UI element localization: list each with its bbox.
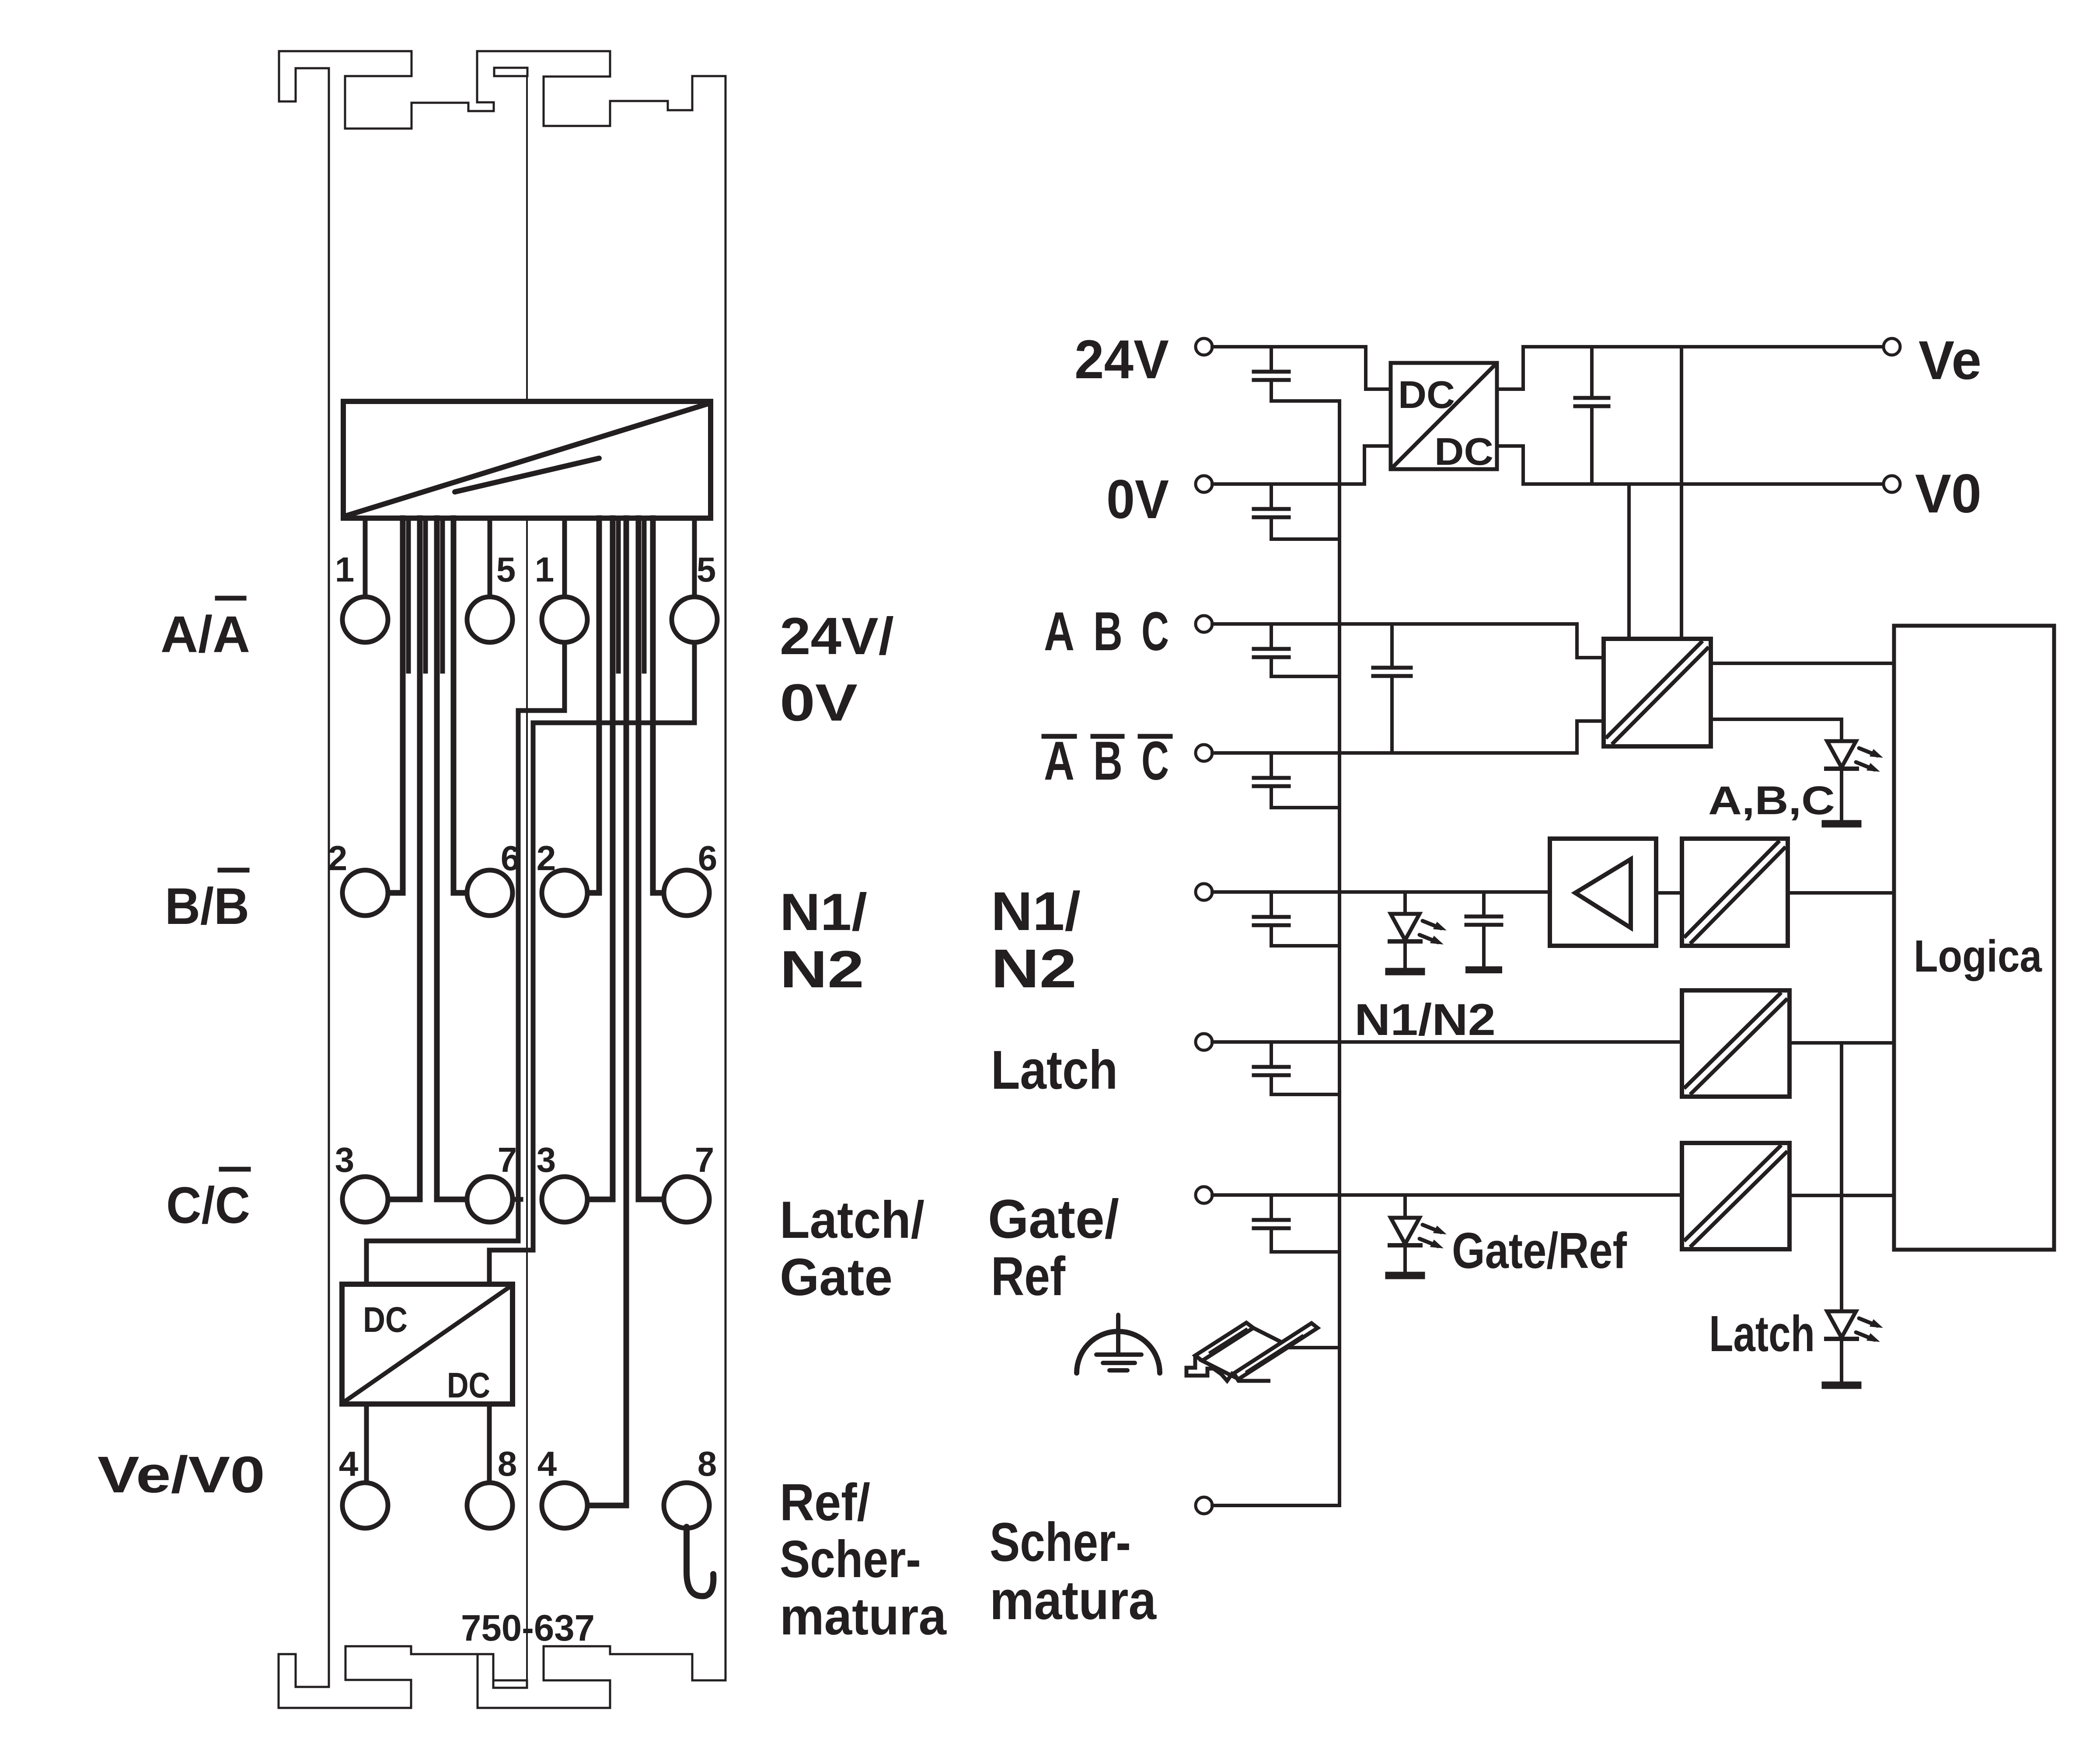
shield bus vertical [1338, 401, 1341, 1505]
wire DCDC out 4 [364, 1404, 369, 1483]
svg-text:DC: DC [447, 1366, 490, 1405]
wire cap24V to bus [1271, 399, 1340, 403]
wire pin2' bus [587, 518, 599, 893]
wire pin1 (r1c1 top) [363, 518, 368, 599]
svg-text:N2: N2 [991, 938, 1077, 999]
contact 4' (Ref) [542, 1483, 587, 1528]
contact 1 (A) [342, 597, 388, 642]
svg-text:8: 8 [698, 1444, 717, 1483]
svg-text:Logica: Logica [1914, 931, 2042, 981]
wire r1c4 to DCDC-in [489, 643, 694, 1284]
wire Latch to isolator [1212, 1040, 1682, 1044]
wire Gate to isolator [1212, 1193, 1682, 1197]
wire pin6' bus [653, 518, 664, 893]
svg-text:7: 7 [498, 1140, 517, 1179]
DC/DC converter box [1391, 363, 1497, 469]
capacitor on ABC [1270, 624, 1273, 647]
wire ABC isolator to LED [1711, 719, 1842, 741]
svg-text:Latch: Latch [991, 1040, 1118, 1101]
contact 3 (C) [342, 1177, 388, 1222]
capacitor on 0V [1270, 484, 1273, 507]
svg-text:750-637: 750-637 [461, 1607, 595, 1648]
wire pair stub d [616, 518, 621, 671]
contact 2' (N1) [542, 870, 587, 916]
svg-text:0V: 0V [780, 673, 858, 732]
isolator ABC [1604, 639, 1711, 746]
svg-text:Gate: Gate [780, 1248, 893, 1307]
isolator Gate/Ref [1682, 1143, 1790, 1249]
overbar on A [217, 596, 244, 601]
svg-text:2: 2 [328, 839, 348, 878]
amplifier triangle [1575, 859, 1631, 928]
contact 6 (/B) [467, 870, 513, 916]
contact 5' (0V) [672, 597, 717, 642]
terminal Gate/Ref [1196, 1187, 1212, 1203]
wire capABC to bus [1271, 675, 1338, 678]
svg-text:6: 6 [501, 839, 520, 878]
contact 2 (B) [342, 870, 388, 916]
power supply box [343, 401, 711, 518]
terminal Ve [1884, 338, 1900, 355]
contact 3' (Latch) [542, 1177, 587, 1222]
terminal /A/B/C [1196, 745, 1212, 761]
wire pair stub c [440, 518, 445, 671]
svg-text:6: 6 [698, 839, 718, 878]
wire 24V to DC/DC [1212, 347, 1391, 389]
wire pin4' bus (Ref) [587, 518, 626, 1505]
svg-text:7: 7 [695, 1140, 715, 1179]
terminal Schermatura [1196, 1497, 1212, 1514]
overbar on B [220, 868, 247, 873]
svg-text:Gate/Ref: Gate/Ref [1452, 1222, 1627, 1279]
wire pair stub e [642, 518, 647, 671]
wire pin7' bus [638, 518, 664, 1199]
svg-text:24V/: 24V/ [780, 607, 894, 665]
wire r3c2 tap [513, 1197, 521, 1202]
bottom bridge connector [478, 1653, 493, 1655]
contact 5 (/A) [467, 597, 513, 642]
wire Latch LED branch [1840, 1043, 1843, 1311]
svg-text:N1/N2: N1/N2 [1354, 995, 1496, 1045]
wire 0V to DC/DC [1212, 446, 1391, 484]
svg-text:Latch/: Latch/ [780, 1191, 924, 1249]
shield hook [687, 1527, 713, 1596]
svg-text:C: C [1141, 601, 1169, 662]
wire pin2 stub [388, 891, 403, 895]
wire pin5 (r1c2 top) [488, 518, 492, 599]
svg-text:3: 3 [537, 1140, 556, 1179]
wire pin1' (r1c3 top) [562, 518, 567, 599]
capacitor on 24V [1270, 347, 1273, 369]
svg-text:B: B [1093, 601, 1123, 662]
overbar on C [221, 1167, 248, 1172]
wire pin3 bus [388, 518, 420, 1199]
svg-text:Scher-: Scher- [780, 1530, 921, 1589]
svg-text:N2: N2 [780, 940, 864, 999]
svg-text:N1/: N1/ [991, 881, 1081, 942]
contact 7' (Gate) [664, 1177, 709, 1222]
svg-text:5: 5 [697, 550, 716, 589]
wire pair stub a [406, 518, 411, 671]
svg-text:DC: DC [1398, 373, 1455, 416]
svg-text:0V: 0V [1106, 469, 1169, 530]
wire DC/DC to Ve [1497, 347, 1883, 389]
svg-text:B: B [1093, 731, 1123, 791]
module center divider line [526, 76, 528, 401]
svg-text:1: 1 [535, 550, 555, 589]
capacitor on Gate [1270, 1195, 1273, 1218]
wire pair stub b [423, 518, 428, 671]
terminal V0 [1884, 476, 1900, 492]
wire ABC isolator to Logica [1711, 662, 1894, 665]
svg-text:Latch: Latch [1709, 1305, 1815, 1362]
wire r1c3 to DCDC-in [366, 643, 565, 1284]
wire capLatch to bus [1271, 1093, 1338, 1096]
wire cap/ABC to bus [1271, 806, 1338, 809]
svg-text:A,B,C: A,B,C [1708, 778, 1835, 823]
svg-text:A: A [1044, 601, 1074, 662]
svg-text:A: A [1044, 731, 1074, 791]
power supply box diagonal [345, 404, 708, 516]
svg-text:Gate/: Gate/ [988, 1189, 1119, 1250]
svg-text:4: 4 [339, 1444, 359, 1483]
wire Schermatura to bus [1212, 1504, 1340, 1507]
wire N1 to amplifier [1212, 890, 1550, 894]
svg-text:8: 8 [498, 1444, 517, 1483]
LED N1/N2 [1403, 892, 1407, 968]
svg-text:Ref/: Ref/ [780, 1473, 870, 1532]
wire Ve branch to ABC isolator [1680, 347, 1683, 639]
svg-text:Ve: Ve [1919, 330, 1981, 391]
svg-text:4: 4 [537, 1444, 557, 1483]
amplifier box [1550, 839, 1656, 946]
terminal N1/N2 [1196, 884, 1212, 900]
wire V0 branch to ABC isolator [1627, 484, 1631, 639]
terminal 0V [1196, 476, 1212, 492]
svg-text:C: C [1141, 731, 1169, 791]
contact 6' (N2) [664, 870, 709, 916]
terminal Latch [1196, 1034, 1212, 1050]
wire /ABC to isolator [1212, 721, 1604, 753]
DC/DC diagonal [1392, 365, 1495, 467]
wire ABC to isolator [1212, 624, 1604, 658]
svg-text:DC: DC [1434, 430, 1493, 473]
wire DCDC out 8 [487, 1404, 492, 1483]
capacitor on /ABC [1270, 753, 1273, 776]
module outline 750-637 [279, 51, 726, 1708]
contact 7 (/C) [467, 1177, 513, 1222]
wire capN1 to bus [1271, 944, 1338, 948]
svg-text:5: 5 [496, 550, 516, 589]
isolator Latch [1682, 990, 1790, 1097]
svg-text:Ve/V0: Ve/V0 [98, 1446, 265, 1504]
wire DC/DC to V0 [1497, 446, 1883, 484]
ground symbol [1077, 1331, 1160, 1373]
wire Latch isolator to Logica [1790, 1041, 1894, 1045]
wire pin5' (r1c4 top) [692, 518, 697, 599]
DIN rail symbol [1186, 1323, 1318, 1381]
contact 4 (Ve) [342, 1483, 388, 1528]
capacitor ABC to /ABC [1390, 624, 1394, 665]
wire pin7 bus [437, 518, 467, 1199]
module DC/DC diagonal [344, 1286, 510, 1402]
LED A,B,C [1840, 721, 1843, 820]
isolator N1/N2 [1682, 839, 1788, 946]
power supply box second diagonal [455, 458, 599, 492]
wire pin6 bus [453, 518, 467, 893]
svg-text:2: 2 [537, 839, 556, 878]
svg-text:Scher-: Scher- [990, 1512, 1131, 1573]
wire capGate to bus [1271, 1250, 1338, 1254]
overbars on A B C [1044, 734, 1074, 739]
wire pin3' bus [587, 518, 613, 1199]
wire pin2 bus [385, 518, 403, 893]
contact 8' (Schermatura) [664, 1483, 709, 1528]
wire Gate isolator to Logica [1790, 1194, 1894, 1197]
wire amp to isolator [1656, 891, 1682, 895]
svg-text:matura: matura [990, 1570, 1157, 1631]
svg-text:A/A: A/A [160, 606, 250, 663]
svg-text:3: 3 [335, 1140, 355, 1179]
svg-text:24V: 24V [1074, 329, 1169, 390]
terminal ABC [1196, 616, 1212, 632]
svg-text:1: 1 [335, 550, 355, 589]
svg-text:DC: DC [363, 1300, 408, 1340]
capacitor across Ve/V0 [1590, 347, 1594, 396]
svg-text:Ref: Ref [991, 1246, 1065, 1307]
capacitor on Latch [1270, 1042, 1273, 1065]
Logica block [1894, 626, 2054, 1250]
contact 1' (24V) [542, 597, 587, 642]
wire cap0V to bus [1271, 537, 1338, 541]
contact 8 (V0) [467, 1483, 513, 1528]
wire rail to bus [1290, 1346, 1340, 1349]
svg-text:N1/: N1/ [780, 883, 867, 941]
capacitor on N1 [1270, 892, 1273, 915]
LED Latch [1840, 1045, 1843, 1382]
bottom interlock tab [493, 1680, 527, 1688]
terminal 24V [1196, 338, 1212, 355]
capacitor N1 filter [1482, 892, 1486, 914]
wire N1 isolator to Logica [1788, 891, 1894, 895]
svg-text:matura: matura [780, 1587, 947, 1646]
top interlock tab [494, 68, 527, 76]
module DC/DC converter box [342, 1284, 513, 1404]
svg-text:C/C: C/C [166, 1177, 250, 1234]
svg-text:B/B: B/B [165, 878, 249, 935]
LED Gate/Ref [1403, 1195, 1407, 1272]
svg-text:V0: V0 [1915, 463, 1981, 524]
